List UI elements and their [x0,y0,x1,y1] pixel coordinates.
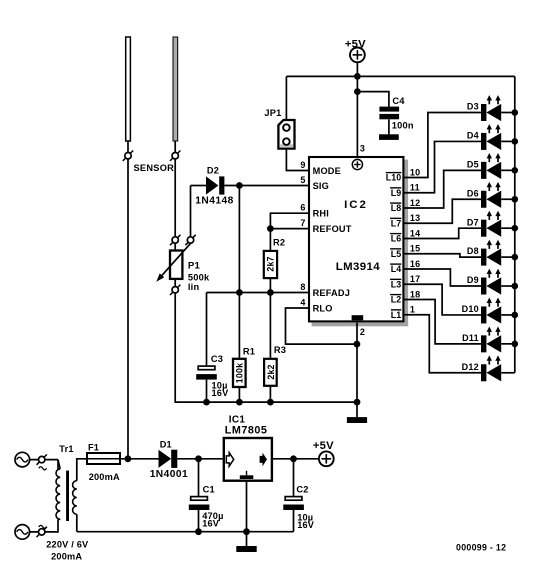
svg-text:C1: C1 [203,484,215,494]
svg-text:200mA: 200mA [51,552,82,562]
svg-text:C4: C4 [392,96,405,106]
value D2 1N4148 [195,196,233,207]
svg-text:R3: R3 [274,345,286,355]
wire bottom supply rail [77,531,294,533]
wire REFADJ to C3 [206,293,208,366]
junction bus / D11 [512,341,519,348]
LED D4 [481,124,501,150]
wire into primary [57,460,59,469]
wire right probe to pin [174,141,176,153]
svg-text:2: 2 [360,327,365,337]
svg-text:17: 17 [410,274,420,284]
wire right sensor to P1 pin [174,159,176,237]
wire C1 to rail [198,510,200,532]
wire branch to C4 [357,92,389,107]
wire IC2 pin 10 to D3 [404,113,482,178]
svg-text:REFOUT: REFOUT [313,224,352,234]
wire C3 to ground rail [206,380,208,403]
solder pin (AC bottom) [37,527,47,537]
capacitor C2 minus plate [283,505,304,511]
wire top +5V rail [286,75,514,77]
wire IC2 pin 14 to D7 [404,228,482,238]
junction bus / D4 [512,138,519,145]
svg-text:L4: L4 [391,264,402,274]
wire R2 bottom to R3 [269,279,271,358]
wire D12 anode to bus [501,372,515,374]
svg-text:C3: C3 [211,354,223,364]
svg-text:100n: 100n [392,121,414,131]
junction divider / REFADJ line [236,289,243,296]
svg-text:D11: D11 [462,333,479,343]
junction pin2/rail/ground [354,399,361,406]
sensor probe left [126,37,131,141]
label D5 [467,159,479,169]
value C2 10u [297,512,313,522]
label C4 [392,96,405,106]
junction C1 / rail [195,528,202,535]
wire IC1 output to +5V [273,458,319,460]
svg-text:D2: D2 [207,166,219,176]
LED D10 [481,298,501,324]
label LM3914 [336,261,380,273]
wire D9 anode to bus [501,285,515,287]
wire IC2 pin 17 to D10 [404,284,482,315]
svg-text:LM7805: LM7805 [225,424,268,436]
sensor probe right (grey) [173,37,178,141]
svg-text:1N4001: 1N4001 [150,469,188,480]
svg-text:L8: L8 [391,203,402,213]
wire left sensor down to supply line [127,159,129,459]
svg-text:2k7: 2k7 [266,256,276,271]
LED D5 [481,153,501,179]
value C4 100n [392,121,414,131]
junction C4 branch [354,88,361,95]
svg-text:D5: D5 [467,159,479,169]
label Tr1 [59,444,73,454]
junction C1 branch [195,455,202,462]
svg-text:6: 6 [300,203,305,213]
jumper JP1 [278,120,294,149]
svg-text:SENSOR: SENSOR [134,163,175,173]
value C1 16V [202,519,220,529]
power +5V supply symbol (bottom) [313,440,334,466]
svg-text:16: 16 [410,259,420,269]
svg-text:D6: D6 [467,188,479,198]
IC2 pin name SIG [313,181,329,191]
IC2 pin name RHI [313,209,329,219]
wire left probe to pin [127,141,129,153]
svg-text:11: 11 [410,183,420,193]
svg-text:9: 9 [300,160,305,170]
wire rail to ground symbol [356,402,358,417]
svg-text:C2: C2 [296,484,308,494]
IC2 output label L1 (active low) [391,310,402,320]
svg-text:16V: 16V [212,388,230,398]
svg-text:RLO: RLO [313,303,333,313]
wire REFOUT pin 7 [270,228,308,230]
wire D3 anode to bus [501,112,515,114]
svg-text:D3: D3 [467,102,479,112]
junction bus / D9 [512,283,519,290]
label D9 [467,275,479,285]
solder pin (P1 top) [170,235,180,245]
transformer Tr1 primary winding [56,460,60,520]
wire secondary bottom to rail [76,514,78,531]
wire F1 to D1 [121,458,159,460]
wire R1 to ground rail [238,387,240,403]
label C2 [296,484,308,494]
label D6 [467,188,479,198]
wire D6 anode to bus [501,198,515,200]
pin 16 label [410,259,420,269]
svg-text:L10: L10 [386,173,402,183]
wire IC2 pin 15 to D8 [404,254,482,257]
wire REFADJ pin 8 [207,292,309,294]
pin 9 label [300,160,305,170]
solder pin (P1 wiper) [185,235,195,245]
wire IC2 pin 13 to D6 [404,199,482,223]
label LM7805 [225,424,268,436]
junction top rail / IC2 pin3 feed [354,73,361,80]
wire divider vertical [238,186,240,358]
wire IC2 pin 16 to D9 [404,269,482,286]
svg-text:3: 3 [360,144,365,154]
LED D9 [481,269,501,295]
IC2 output label L7 (active low) [390,218,401,228]
label IC2 [344,199,368,211]
svg-text:+5V: +5V [345,38,366,50]
capacitor C1 plus plate [191,497,208,501]
pin 4 label [300,297,305,307]
svg-text:L7: L7 [391,218,402,228]
label D2 [207,166,219,176]
value C1 470u [202,511,223,521]
svg-text:15: 15 [410,244,420,254]
potentiometer P1 body [170,251,182,279]
IC1 ground tab symbol [240,471,254,479]
svg-text:000099 - 12: 000099 - 12 [456,543,506,553]
svg-text:16V: 16V [297,520,315,530]
pin 13 label [410,213,420,223]
label D8 [467,246,479,256]
junction bus / D10 [512,312,519,319]
value C3 16V [212,388,230,398]
P1 wiper arrow [156,243,190,281]
wire P1 bottom to ground rail [174,293,176,403]
wire C2 to rail [293,510,295,532]
wire RHI pin 6 [270,213,308,228]
svg-text:13: 13 [410,213,420,223]
svg-text:220V / 6V: 220V / 6V [46,540,89,550]
capacitor C4 top plate [379,107,399,112]
svg-text:D8: D8 [467,246,479,256]
wire IC1 ground down [246,480,248,546]
label SENSOR [134,163,175,173]
svg-text:IC2: IC2 [344,199,368,211]
pin 3 label [360,144,365,154]
fuse F1 [87,453,120,464]
pin 14 label [410,228,420,238]
wire +5V rail to JP1 [285,76,287,119]
wire D5 anode to bus [501,169,515,171]
pin 15 label [410,244,420,254]
pin 11 label [410,183,420,193]
wire D7 anode to bus [501,227,515,229]
junction bus / D6 [512,196,519,203]
junction R2/R3/REFADJ [267,289,274,296]
label D4 [467,131,479,141]
wire secondary top to F1 [77,459,87,481]
label D12 [462,362,479,372]
solder pin (AC top) [37,454,47,464]
svg-text:D4: D4 [467,131,479,141]
pin 1 label [410,305,415,315]
wire LED anode bus [514,76,516,372]
capacitor C4 bottom plate [379,114,399,119]
svg-text:D9: D9 [467,275,479,285]
svg-text:16V: 16V [202,519,220,529]
svg-text:L3: L3 [391,279,402,289]
pin 6 label [300,203,305,213]
svg-text:200mA: 200mA [89,472,120,482]
svg-text:MODE: MODE [313,166,341,176]
IC2 output label L6 (active low) [390,234,401,244]
IC2 output label L2 (active low) [390,295,401,305]
junction RLO / pin2 wire [354,341,361,348]
wire D2 to SIG pin 5 [224,185,308,187]
svg-text:D10: D10 [462,304,479,314]
wire C2 top [293,459,295,496]
label D3 [467,102,479,112]
value P1 lin [188,282,200,292]
resistor R3 [264,359,277,386]
value C3 10u [212,381,228,391]
junction IC1 ground / rail [243,528,250,535]
svg-text:+5V: +5V [313,440,334,452]
label C1 [203,484,215,494]
IC2 pin name REFOUT [313,224,352,234]
resistor R2 [264,251,277,278]
svg-text:L1: L1 [391,310,402,320]
LED D12 [481,355,501,381]
svg-text:L6: L6 [391,234,402,244]
transformer Tr1 secondary winding [73,481,77,515]
power +5V supply symbol (top) [345,38,366,62]
svg-text:P1: P1 [188,260,201,271]
label F1 [88,443,99,453]
LED D3 [481,95,501,121]
label R3 [274,345,286,355]
pin 2 label [360,327,365,337]
svg-text:4: 4 [300,297,305,307]
junction bus / D7 [512,225,519,232]
wire IC2 pin 3 vertical [356,76,358,156]
svg-text:LM3914: LM3914 [336,261,380,273]
junction sensor feed / supply [125,455,132,462]
wire +5V symbol to top rail [356,62,358,76]
wire IC2 pin 18 to D11 [404,300,482,344]
value Tr1 200mA [51,552,82,562]
label D11 [462,333,479,343]
wire D1 to IC1 [177,458,222,460]
IC2 shadow [312,160,409,327]
wire D4 anode to bus [501,140,515,142]
capacitor C3 minus plate [196,374,217,380]
LED D7 [481,211,501,237]
label D10 [462,304,479,314]
LED D11 [481,326,501,352]
transformer Tr1 core [66,471,69,521]
wire P1 pin to P1 body [174,243,176,249]
label P1 [188,260,201,271]
svg-text:12: 12 [410,198,420,208]
diode D1 1N4001 [159,450,178,468]
svg-text:14: 14 [410,228,420,238]
AC tilde mark (bottom) [39,525,47,528]
wire C4 to ground [388,119,390,134]
IC1 output arrow [260,453,267,467]
AC source (mains, bottom) [15,525,30,540]
resistor R1 [233,359,246,387]
IC2 output label L9 (active low) [390,188,401,198]
svg-text:1N4148: 1N4148 [195,196,233,207]
solder pin (right sensor) [170,151,180,161]
svg-text:5: 5 [300,175,305,185]
svg-text:7: 7 [300,218,305,228]
capacitor C1 minus plate [189,505,210,511]
ground symbol (IC2 section) [347,417,367,423]
diode D2 1N4148 [206,176,224,194]
svg-text:8: 8 [300,282,305,292]
label D1 [160,440,172,450]
IC1 input arrow [226,453,233,467]
label R2 [273,237,285,247]
LED D6 [481,182,501,208]
wire D11 anode to bus [501,343,515,345]
capacitor C2 plus plate [285,497,302,501]
value P1 500k [188,273,210,283]
svg-text:100k: 100k [235,363,245,383]
label JP1 [264,108,281,118]
IC2 pin name REFADJ [313,288,350,298]
wire RLO pin 4 [286,308,357,344]
IC2 output label L4 (active low) [390,264,401,274]
drawing number 000099-12 [456,543,506,553]
IC2 pin name MODE [313,166,341,176]
AC source (mains, top) [15,452,30,467]
svg-text:L2: L2 [391,295,402,305]
pin 8 label [300,282,305,292]
svg-text:R2: R2 [273,237,285,247]
svg-text:F1: F1 [88,443,99,453]
wire D10 anode to bus [501,314,515,316]
wire to R2 top [269,229,271,250]
junction R1/rail [236,399,243,406]
junction C3/rail [203,399,210,406]
wire C1 top [198,459,200,496]
wire AC bottom to primary [30,519,61,532]
voltage regulator IC1 LM7805 body [224,438,272,481]
svg-text:2k2: 2k2 [266,364,276,379]
wire D8 anode to bus [501,256,515,258]
AC tilde mark (top) [39,467,47,470]
junction pin6/pin7/R2 [267,225,274,232]
pin 18 label [410,289,420,299]
svg-text:10: 10 [410,167,420,177]
wire R3 to ground rail [269,386,271,403]
pin 5 label [300,175,305,185]
IC2 minus/ground bar symbol [352,315,364,320]
value D1 1N4001 [150,469,188,480]
svg-text:D7: D7 [467,217,479,227]
op-amp IC2 LM3914 body [309,157,403,321]
pin 12 label [410,198,420,208]
junction bus / D3 [512,109,519,116]
solder pin (P1 bottom) [170,285,180,295]
junction bus / D5 [512,167,519,174]
label D7 [467,217,479,227]
svg-text:REFADJ: REFADJ [313,288,350,298]
svg-text:JP1: JP1 [264,108,281,118]
wire IC2 pin 12 to D5 [404,170,482,208]
LED D8 [481,240,501,266]
svg-text:RHI: RHI [313,209,329,219]
wire IC2 pin 11 to D4 [404,141,482,192]
pin 17 label [410,274,420,284]
IC2 output label L3 (active low) [390,279,401,289]
wire AC top to transformer [30,459,58,461]
svg-text:R1: R1 [243,347,255,357]
svg-text:18: 18 [410,289,420,299]
wire P1 wiper up to D2 [191,186,207,237]
svg-text:1: 1 [410,305,415,315]
svg-text:SIG: SIG [313,181,329,191]
label IC1 [229,414,246,425]
junction C2 branch [290,455,297,462]
label C3 [211,354,223,364]
pin 7 label [300,218,305,228]
ground symbol (C4) [379,134,399,140]
svg-text:L9: L9 [391,188,402,198]
value F1 200mA [89,472,120,482]
solder pin (left sensor) [123,151,133,161]
capacitor C3 plus plate [198,366,215,370]
IC2 pin name RLO [313,303,333,313]
ground symbol (IC1) [236,546,256,552]
value C2 16V [297,520,315,530]
junction D2 / R1 divider [236,182,243,189]
wire IC2 pin 1 to D12 [404,315,482,373]
IC2 output label L8 (active low) [390,203,401,213]
svg-text:D12: D12 [462,362,479,372]
value 220V / 6V [46,540,89,550]
svg-text:Tr1: Tr1 [59,444,73,454]
IC2 plus terminal symbol [352,159,362,169]
IC2 output label L10 (active low) [386,173,402,183]
wire IC2 pin 2 to ground rail [356,323,358,403]
pin 10 label [410,167,420,177]
IC2 output label L5 (active low) [390,249,401,259]
wire JP1 to MODE pin 9 [286,150,308,171]
svg-text:D1: D1 [160,440,172,450]
svg-text:L5: L5 [391,249,402,259]
label R1 [243,347,255,357]
wire ground rail (sensor section) [175,401,357,403]
junction R3/rail [267,399,274,406]
wire P1 body to bottom pin [174,279,176,287]
junction bus / D8 [512,254,519,261]
svg-text:lin: lin [188,282,200,292]
